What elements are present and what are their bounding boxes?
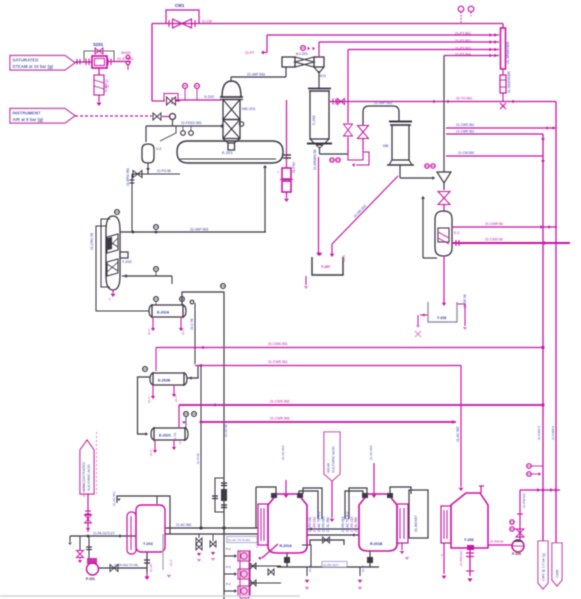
svg-text:21-CWS-56: 21-CWS-56 [485,238,503,242]
svg-text:21-JACKET: 21-JACKET [414,515,418,532]
svg-text:MB: MB [383,144,389,148]
svg-text:21-AC-564: 21-AC-564 [369,445,373,460]
svg-text:SULFURIC ACID: SULFURIC ACID [332,446,336,473]
svg-text:21-AC TO R-2: 21-AC TO R-2 [346,512,350,532]
svg-text:21-VAP-561: 21-VAP-561 [247,73,265,77]
svg-text:21-SPARGER: 21-SPARGER [506,41,510,64]
svg-text:2-V: 2-V [178,439,182,444]
svg-text:21-DRAIN-56: 21-DRAIN-56 [313,150,317,170]
svg-text:R-201B: R-201B [370,542,383,546]
svg-text:21-CWR-562: 21-CWR-562 [270,417,290,421]
svg-text:S-202: S-202 [204,95,214,99]
svg-text:2-D: 2-D [255,542,259,548]
svg-text:21-VAP-562: 21-VAP-562 [374,101,392,105]
svg-text:21-CWR-561: 21-CWR-561 [456,130,475,134]
svg-text:P-206: P-206 [512,552,521,556]
svg-text:E21: E21 [320,74,326,78]
svg-text:21-CWR-56: 21-CWR-56 [485,222,503,226]
svg-text:21-CWR-5: 21-CWR-5 [551,426,555,440]
svg-text:S201: S201 [93,42,104,47]
svg-text:CW1: CW1 [175,3,185,8]
svg-text:21-V: 21-V [181,329,185,335]
svg-text:21-CW: 21-CW [202,20,212,24]
svg-text:CWS @ 3.0 bar (g): CWS @ 3.0 bar (g) [542,553,546,581]
svg-text:T-208: T-208 [437,316,446,320]
svg-text:P-2: P-2 [226,582,231,586]
svg-text:21-PA OUTLET: 21-PA OUTLET [93,532,115,536]
svg-text:21-CWS-5: 21-CWS-5 [537,426,541,440]
svg-text:21-PT-564: 21-PT-564 [455,53,471,57]
svg-text:21-AC TO R-201: 21-AC TO R-201 [228,538,251,542]
svg-text:21-AC-565: 21-AC-565 [456,426,460,442]
svg-text:21-AC-563: 21-AC-563 [281,445,285,460]
svg-text:21-PG-56: 21-PG-56 [157,169,171,173]
svg-text:E-202A: E-202A [157,311,170,315]
svg-text:21-PSV: 21-PSV [292,161,296,173]
svg-text:E-202C: E-202C [159,434,172,438]
svg-text:T-203: T-203 [143,542,153,546]
svg-text:21-AC: 21-AC [149,563,153,572]
svg-text:21-CWS-561: 21-CWS-561 [456,123,475,127]
svg-text:21-CWR-561: 21-CWR-561 [268,360,288,364]
svg-text:21-C-56: 21-C-56 [190,318,194,330]
svg-text:C-201: C-201 [312,115,316,125]
svg-text:21-CWS-562: 21-CWS-562 [270,400,290,404]
svg-text:STEAM at 10 bar (g): STEAM at 10 bar (g) [13,64,54,69]
svg-text:21-PT-561: 21-PT-561 [455,32,471,36]
svg-text:21-D: 21-D [361,565,365,572]
svg-text:21-TO-561: 21-TO-561 [456,97,472,101]
svg-text:T-202: T-202 [122,260,132,264]
svg-text:E-201: E-201 [222,150,233,155]
svg-text:21-PA-56: 21-PA-56 [82,484,86,497]
svg-text:21-ST-561: 21-ST-561 [117,57,134,61]
svg-text:21-SL-562: 21-SL-562 [354,517,358,532]
svg-text:21-CIRC-56: 21-CIRC-56 [90,233,94,250]
svg-text:SULFURIC ACID: SULFURIC ACID [87,464,91,491]
svg-text:21-V: 21-V [174,396,178,402]
svg-text:EJ-201: EJ-201 [296,52,308,56]
svg-text:21-: 21- [105,79,110,83]
svg-text:21-AC-56: 21-AC-56 [224,424,228,437]
svg-text:21-PW-56: 21-PW-56 [490,540,504,544]
svg-text:R-201A: R-201A [280,544,293,548]
svg-text:21-AC-561: 21-AC-561 [112,491,116,506]
svg-text:21-P-56: 21-P-56 [196,453,200,464]
svg-text:21-RX-012: 21-RX-012 [313,516,317,532]
svg-text:21-RX-013: 21-RX-013 [322,516,326,532]
svg-text:21-RX OUT: 21-RX OUT [323,563,339,567]
svg-text:21-PT-563: 21-PT-563 [455,47,471,51]
svg-text:MD-201: MD-201 [242,107,256,111]
svg-text:21-V: 21-V [169,560,173,566]
svg-text:21-V: 21-V [149,450,153,456]
svg-text:T-206: T-206 [464,538,474,542]
svg-text:P-201: P-201 [86,577,95,581]
svg-text:INSTRUMENT: INSTRUMENT [13,110,42,115]
svg-text:21-V: 21-V [147,397,151,403]
svg-text:WEAK: WEAK [327,462,331,473]
svg-text:21-BFW-561: 21-BFW-561 [126,168,130,186]
svg-text:E-202B: E-202B [158,379,171,383]
svg-text:21-PW-562: 21-PW-562 [459,551,463,566]
svg-text:CWR: CWR [556,569,560,578]
svg-text:AIR at 8 bar (g): AIR at 8 bar (g) [13,117,44,122]
svg-text:21-CWS-561: 21-CWS-561 [268,342,288,346]
svg-text:21-FEED-561: 21-FEED-561 [181,121,202,125]
svg-text:21-AC-562: 21-AC-562 [176,523,192,527]
svg-text:21-SILENCER: 21-SILENCER [507,71,511,93]
svg-text:21-TG: 21-TG [173,432,177,441]
svg-text:to atm: to atm [104,83,108,92]
svg-text:21-S: 21-S [342,255,346,262]
svg-text:21-PW-561: 21-PW-561 [522,493,526,508]
svg-text:21-PT-562: 21-PT-562 [455,39,471,43]
svg-text:21-V: 21-V [147,329,151,335]
svg-text:21-AC TO R-2: 21-AC TO R-2 [317,512,321,532]
svg-text:SATURATED: SATURATED [13,57,39,62]
svg-text:21-PT: 21-PT [245,51,254,55]
svg-text:21-SL-561: 21-SL-561 [326,517,330,532]
svg-text:E-2: E-2 [454,231,459,235]
svg-text:T-207: T-207 [321,265,330,269]
svg-text:21-PA-562 TO RE: 21-PA-562 TO RE [114,563,138,567]
svg-text:V-2: V-2 [156,147,161,151]
svg-text:21-CW-562: 21-CW-562 [458,151,474,155]
svg-text:P-2: P-2 [226,565,231,569]
svg-text:21-RX-011: 21-RX-011 [308,517,312,532]
svg-text:21-RX-014: 21-RX-014 [341,516,345,532]
svg-text:P-2: P-2 [226,547,231,551]
svg-text:21-VAP-563: 21-VAP-563 [190,228,208,232]
svg-text:SH20: SH20 [121,51,131,55]
